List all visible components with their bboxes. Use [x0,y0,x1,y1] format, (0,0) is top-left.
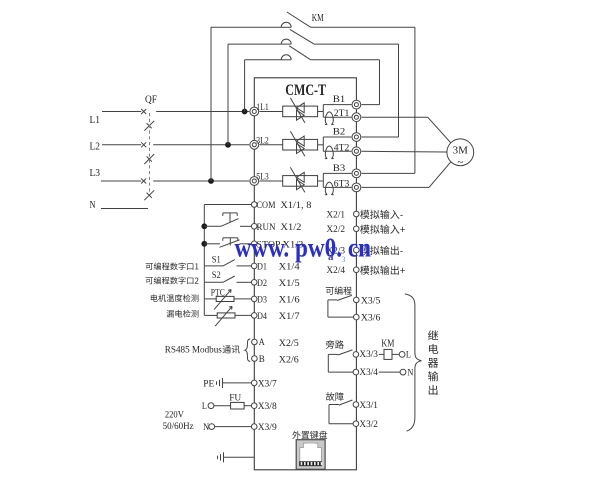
terminal B [252,356,258,362]
svg-text:X1/1, 8: X1/1, 8 [280,201,311,211]
svg-text:X3/2: X3/2 [359,420,378,430]
svg-text:X3/8: X3/8 [258,402,277,412]
brace A/B [245,339,250,362]
terminal B2 [352,133,361,142]
svg-text:X1/2: X1/2 [280,223,301,233]
terminal X3/5 [354,297,360,303]
node L2 junction [225,142,231,148]
wire chassis [224,456,255,458]
svg-text:D1: D1 [257,262,267,272]
svg-text:D4: D4 [257,312,267,322]
terminal X2/2 [354,226,360,232]
label 外置键盘 [292,431,300,439]
thyristor module phase 3 [259,180,282,182]
svg-text:B3: B3 [333,164,346,174]
svg-text:L: L [406,351,411,361]
thyristor module phase 1 [259,111,282,113]
terminal X3/8 [251,403,257,409]
svg-text:L: L [202,402,207,412]
svg-text:X2/5: X2/5 [279,339,299,349]
terminal 5L3 [250,177,259,186]
wire 6T3 to motor [362,186,430,188]
label 故障 [326,392,335,401]
relay contact 可编程 [328,299,337,301]
wire L1 riser [244,60,246,112]
svg-text:B2: B2 [333,128,346,138]
svg-text:X2/1: X2/1 [326,210,345,220]
svg-text:3: 3 [342,255,346,264]
terminal B3 [352,169,361,178]
push button STOP [204,243,220,245]
svg-text:D3: D3 [257,295,267,305]
svg-text:RUN: RUN [257,223,276,233]
terminal 2T1 [352,113,361,122]
breaker QF pole 1 [141,109,146,114]
terminal L out [399,352,405,358]
terminal 3L2 [250,140,259,149]
earth symbol chassis [217,456,219,460]
terminal RUN [251,224,257,230]
terminal X2/4 [354,267,360,273]
terminal 1L1 [250,107,259,116]
terminal STOP [251,241,257,247]
wire PE [223,382,252,384]
push button RUN [204,225,221,227]
terminal D4 [251,313,257,319]
svg-text:S1: S1 [212,256,221,266]
svg-text:6T3: 6T3 [334,179,350,189]
switch S1 [204,265,223,267]
svg-text:L2: L2 [90,142,101,153]
svg-text:PE: PE [203,380,214,390]
svg-text:L1: L1 [90,115,101,126]
terminal X2/1 [354,211,360,217]
svg-text:3M: 3M [453,145,469,157]
breaker QF pole 3 [141,179,146,184]
svg-text:B: B [259,355,265,365]
terminal D1 [251,263,257,269]
wire KM3 drop to B1 [379,60,381,105]
svg-text:X1/7: X1/7 [279,312,300,322]
terminal L input [208,403,214,409]
svg-text:X1/5: X1/5 [279,279,300,289]
thyristor module phase 2 [259,144,282,146]
svg-text:X3/6: X3/6 [361,314,381,324]
svg-text:KM: KM [381,339,394,350]
svg-text:X1/6: X1/6 [279,295,300,305]
svg-text:N: N [90,200,96,211]
contactor KM contact 1 (top) [281,22,291,27]
wire L3 in [101,180,141,182]
svg-text:a: a [328,251,334,263]
terminal X3/2 [353,421,359,427]
svg-text:S2: S2 [212,271,221,281]
wire X3/4 to N [379,371,400,373]
terminal COM [251,202,257,208]
terminal X3/1 [353,402,359,408]
leakage sensor [204,314,217,316]
svg-text:N: N [203,423,209,433]
label 可编程 [326,287,334,295]
switch S2 [204,281,223,283]
svg-text:X3/9: X3/9 [258,423,277,433]
svg-text:QF: QF [145,94,157,105]
wire L3 riser [210,27,212,181]
svg-text:2T1: 2T1 [334,109,350,119]
svg-text:RS485 Modbus: RS485 Modbus [165,345,222,355]
contactor KM contact 2 [281,39,291,44]
svg-text:X3/7: X3/7 [258,379,277,389]
node rail STOP [201,241,207,247]
svg-text:D2: D2 [257,279,267,289]
svg-text:X3/3: X3/3 [359,350,378,360]
svg-text:4T2: 4T2 [334,143,350,153]
svg-text:X3/1: X3/1 [359,401,378,411]
terminal 6T3 [352,183,361,192]
contactor KM contact 3 [281,55,291,60]
svg-text:5L3: 5L3 [256,173,269,183]
wire L1 in [102,111,141,113]
label 可编程数字口1 [146,263,153,270]
wire L2 riser [227,44,229,145]
terminal N out [400,369,406,375]
contactor coil KM [379,353,384,355]
wire control rail [203,205,205,316]
terminal N input [209,424,215,430]
svg-text:www. pw0. cn: www. pw0. cn [235,233,372,263]
svg-text:A: A [259,338,265,348]
svg-text:X3/4: X3/4 [359,368,378,378]
node L3 junction [208,178,214,184]
label 旁路 [326,340,335,349]
svg-text:3L2: 3L2 [256,137,269,147]
terminal 4T2 [352,147,361,156]
label 可编程数字口2 [146,277,153,284]
breaker QF pole 2 [141,142,146,147]
svg-text:1L1: 1L1 [256,103,269,113]
terminal X3/4 [353,369,359,375]
terminal B1 [352,100,361,109]
svg-text:N: N [407,368,413,378]
label 电机温度检测 [151,294,158,301]
svg-text:50/60Hz: 50/60Hz [163,422,194,432]
thermistor PTC [204,298,216,300]
keypad RJ45 jack [296,440,325,470]
svg-text:X3/5: X3/5 [361,296,381,306]
svg-text:L3: L3 [90,168,101,179]
label 漏电检测 [167,310,174,317]
terminal D3 [251,296,257,302]
wire KM1 drop to B3 [414,27,416,173]
svg-text:~: ~ [457,157,463,169]
fuse FU [214,405,231,407]
relay contact 旁路 [328,353,338,355]
node L1 junction [242,109,248,115]
wire N [101,208,148,210]
wire 4T2 to motor [362,150,447,153]
terminal A [252,339,258,345]
starter unit box [254,78,356,470]
breaker QF linkage [149,113,151,193]
svg-text:COM: COM [257,201,276,211]
terminal X3/6 [354,314,360,320]
brace relay outputs [405,294,422,431]
svg-text:220V: 220V [165,410,184,420]
relay contact 故障 [329,404,339,406]
svg-text:X1/4: X1/4 [279,262,300,272]
motor 3M [447,139,474,166]
terminal X3/9 [251,424,257,430]
wire COM [204,204,251,206]
svg-text:B1: B1 [333,95,346,105]
terminal X2/3 [354,247,360,253]
svg-text:CMC-T: CMC-T [285,82,326,99]
terminal X3/7 [251,380,257,386]
svg-text:X2/4: X2/4 [326,266,345,276]
terminal X3/3 [353,352,359,358]
wire 2T1 to motor [362,116,428,118]
node rail RUN [201,223,207,229]
svg-text:KM: KM [312,13,324,24]
wire L2 in [102,144,141,146]
terminal D2 [251,280,257,286]
svg-text:X2/6: X2/6 [279,356,299,366]
earth symbol PE [216,381,218,385]
wire KM2 drop to B2 [398,44,400,137]
svg-text:PTC: PTC [211,288,225,298]
label 继电器输出 [428,330,438,340]
wire N input [215,426,252,428]
